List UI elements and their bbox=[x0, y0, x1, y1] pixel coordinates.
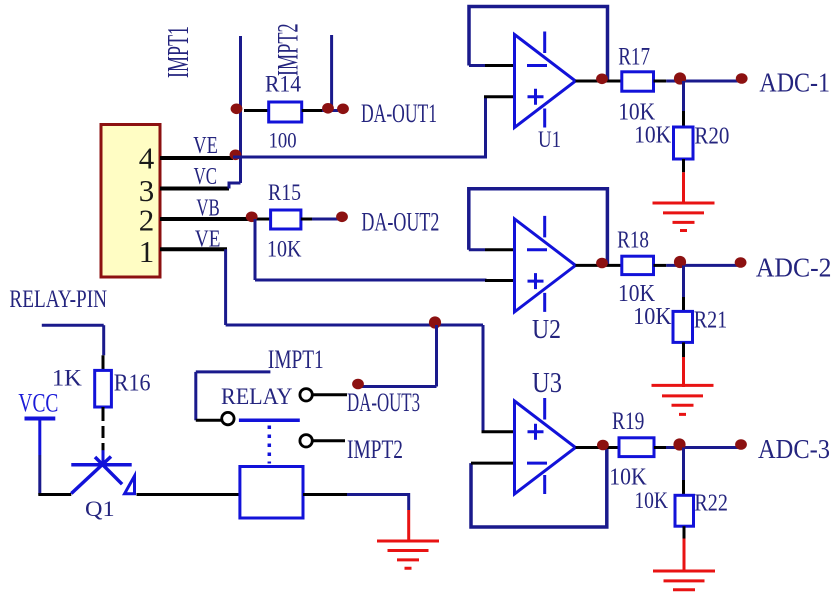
svg-text:10K: 10K bbox=[609, 464, 647, 490]
ground under relay coil bbox=[377, 541, 439, 568]
wire R16 bottom pin black dashed bbox=[102, 407, 105, 451]
wire relay ground red bbox=[407, 510, 410, 543]
wire R21 top pin black bbox=[682, 297, 685, 311]
wire DA-OUT3 branch horizontal bbox=[362, 385, 437, 388]
junction dot node1 bbox=[674, 72, 686, 84]
svg-text:10K: 10K bbox=[267, 237, 302, 262]
wire RELAY-PIN horizontal bbox=[42, 324, 104, 327]
wire node1 to ADC-1 bbox=[684, 80, 742, 83]
transistor Q1 collector line bbox=[95, 457, 122, 484]
wire IMPT1 contact down bbox=[194, 372, 197, 420]
svg-text:DA-OUT3: DA-OUT3 bbox=[347, 388, 420, 417]
power symbol VCC bar bbox=[25, 417, 56, 421]
op-amp U2 plus sign bbox=[528, 273, 544, 289]
svg-text:U2: U2 bbox=[532, 314, 561, 344]
wire row2 horizontal to U2 plus bbox=[255, 279, 487, 282]
svg-text:ADC-1: ADC-1 bbox=[759, 68, 830, 98]
relay common contact circle bbox=[222, 412, 234, 424]
wire node3 down navy bbox=[682, 448, 685, 481]
wire pin1 row horizontal bbox=[226, 324, 483, 327]
op-amp U3 triangle bbox=[515, 401, 576, 494]
wire R22 ground red bbox=[683, 539, 686, 573]
svg-text:R20: R20 bbox=[694, 124, 729, 150]
wire VCC to Q1 emitter black bbox=[38, 493, 71, 496]
wire U1 feedback loop bbox=[469, 7, 608, 82]
wire IMPT2 vertical net bbox=[330, 35, 333, 111]
wire R20 top pin black bbox=[682, 111, 685, 127]
svg-text:DA-OUT1: DA-OUT1 bbox=[361, 99, 437, 128]
relay NO contact circle bbox=[300, 389, 312, 401]
ground under R20 bbox=[653, 203, 715, 231]
port dot ADC-2 bbox=[735, 257, 747, 268]
wire R22 top pin black bbox=[682, 480, 685, 495]
op-amp U2 triangle bbox=[515, 219, 576, 312]
port dot DA-OUT3 bbox=[352, 379, 364, 390]
wire R14 right navy segment bbox=[322, 109, 338, 112]
svg-text:R16: R16 bbox=[114, 370, 151, 396]
junction dot R14 right bbox=[322, 103, 334, 114]
ground under R21 bbox=[652, 385, 714, 414]
wire Q1 collector to coil black bbox=[137, 493, 240, 496]
wire R18 right black bbox=[654, 264, 667, 267]
transistor Q1 emitter line bbox=[71, 457, 111, 494]
wire pin1 down vertical bbox=[224, 249, 227, 325]
junction dot DA-OUT3 node bbox=[429, 316, 441, 328]
wire U2 minus input black bbox=[485, 248, 515, 251]
wire U1 minus navy stub bbox=[469, 64, 485, 67]
wire R21 bottom pin black bbox=[682, 342, 685, 357]
wire R17 to node navy bbox=[666, 80, 683, 83]
port dot DA-OUT1 bbox=[337, 104, 349, 115]
wire U1 output black bbox=[576, 80, 622, 83]
relay NC contact circle IMPT2 bbox=[300, 435, 312, 447]
wire node2 down navy bbox=[682, 265, 685, 297]
pin 2 wire bbox=[160, 217, 250, 221]
wire RELAY-PIN down bbox=[102, 325, 105, 355]
wire relay NO contact black bbox=[313, 393, 347, 396]
svg-text:U3: U3 bbox=[532, 368, 562, 399]
relay actuator dotted line bbox=[268, 426, 272, 464]
power symbol VCC stem blue bbox=[38, 419, 41, 456]
wire R17 right black bbox=[654, 80, 667, 83]
svg-text:10K: 10K bbox=[634, 488, 668, 513]
op-amp U1 triangle bbox=[515, 35, 576, 128]
wire R20 ground red bbox=[682, 172, 685, 204]
junction dot node3 bbox=[673, 438, 685, 450]
svg-text:R14: R14 bbox=[265, 72, 301, 97]
svg-text:2: 2 bbox=[139, 203, 155, 238]
wire U2 minus navy stub bbox=[469, 248, 485, 251]
wire pin2 to R15 black segment bbox=[256, 218, 271, 221]
junction dot U3 output bbox=[597, 440, 609, 451]
resistor R14 bbox=[269, 102, 302, 122]
wire R19 to ADC-3 navy bbox=[666, 446, 741, 449]
op-amp U1 minus sign bbox=[527, 64, 547, 67]
op-amp U1 power ticks bbox=[543, 32, 546, 128]
wire U3 minus input black bbox=[471, 462, 515, 465]
wire pin2 node down bbox=[254, 219, 257, 280]
svg-text:R18: R18 bbox=[617, 228, 649, 254]
pin 4 wire bbox=[160, 156, 233, 160]
op-amp U2 minus sign bbox=[527, 248, 547, 251]
wire DA-OUT3 branch vertical bbox=[435, 325, 438, 387]
svg-text:10K: 10K bbox=[633, 304, 672, 330]
svg-text:10K: 10K bbox=[618, 281, 656, 307]
op-amp U3 plus sign bbox=[528, 424, 544, 440]
resistor R20 bbox=[674, 127, 694, 159]
svg-text:1K: 1K bbox=[52, 365, 82, 390]
svg-text:ADC-3: ADC-3 bbox=[758, 434, 830, 464]
wire U2 feedback loop bbox=[469, 189, 608, 265]
wire R15 to DA-OUT2 navy bbox=[312, 218, 338, 221]
junction dot node2 bbox=[674, 256, 686, 268]
port dot ADC-1 bbox=[736, 73, 748, 84]
resistor R19 bbox=[619, 438, 654, 457]
junction dot R14 left bbox=[231, 104, 243, 115]
resistor R21 bbox=[673, 311, 693, 342]
svg-text:U1: U1 bbox=[538, 127, 561, 152]
pin 1 wire bbox=[160, 247, 227, 251]
op-amp U3 power ticks bbox=[543, 398, 546, 494]
wire R19 right black bbox=[654, 446, 666, 449]
wire R14 left black segment bbox=[244, 109, 269, 112]
wire coil right navy bbox=[347, 495, 409, 511]
wire U3 output black bbox=[576, 446, 620, 449]
resistor R16 bbox=[95, 370, 112, 407]
pin 3 wire bbox=[160, 187, 229, 191]
resistor R17 bbox=[622, 72, 654, 91]
op-amp U3 minus sign bbox=[527, 462, 547, 465]
svg-text:VB: VB bbox=[196, 195, 219, 221]
transistor Q1 base bar bbox=[71, 463, 131, 467]
wire U1 plus input black bbox=[484, 95, 515, 98]
wire coil right black bbox=[303, 493, 347, 496]
svg-text:IMPT1: IMPT1 bbox=[268, 345, 324, 374]
svg-text:100: 100 bbox=[269, 127, 297, 152]
junction dot pin4 node bbox=[230, 150, 242, 161]
wire R16 top pin black bbox=[102, 355, 105, 370]
wire relay NC contact black bbox=[313, 439, 345, 442]
svg-text:VCC: VCC bbox=[18, 388, 58, 417]
op-amp U1 plus sign bbox=[528, 89, 544, 105]
wire IMPT1 contact horizontal bbox=[196, 370, 271, 373]
svg-text:RELAY-PIN: RELAY-PIN bbox=[9, 286, 107, 313]
svg-text:VE: VE bbox=[195, 227, 221, 253]
svg-text:R17: R17 bbox=[618, 44, 650, 71]
connector J1 body bbox=[101, 125, 160, 278]
junction dot U1 output bbox=[596, 74, 608, 85]
wire U2 output black bbox=[576, 264, 622, 267]
resistor R15 bbox=[271, 210, 301, 229]
svg-text:R19: R19 bbox=[612, 408, 644, 435]
wire R14 right black segment bbox=[302, 109, 322, 112]
wire U1 minus input black bbox=[485, 64, 515, 67]
relay blade blue bbox=[239, 419, 300, 423]
svg-text:R21: R21 bbox=[694, 307, 728, 333]
svg-text:4: 4 bbox=[139, 141, 155, 176]
port dot ADC-3 bbox=[735, 439, 747, 450]
wire U3 plus vertical bbox=[482, 325, 485, 433]
junction dot pin2 node bbox=[246, 212, 258, 223]
wire R18 to ADC-2 navy bbox=[666, 264, 741, 267]
port dot DA-OUT2 bbox=[336, 212, 348, 223]
wire node1 down navy bbox=[682, 81, 685, 111]
wire U1 plus vertical bbox=[484, 97, 487, 159]
svg-text:VC: VC bbox=[194, 164, 217, 190]
wire row1 horizontal to U1 plus bbox=[233, 156, 486, 159]
wire IMPT1 vertical net bbox=[239, 36, 242, 183]
svg-text:1: 1 bbox=[139, 234, 155, 269]
svg-text:IMPT1: IMPT1 bbox=[160, 26, 195, 78]
svg-text:Q1: Q1 bbox=[85, 496, 115, 521]
op-amp U2 power ticks bbox=[543, 216, 546, 312]
wire R15 right black pin bbox=[301, 218, 312, 221]
resistor R18 bbox=[622, 256, 654, 274]
svg-text:IMPT2: IMPT2 bbox=[347, 435, 403, 464]
wire U2 plus input black bbox=[485, 279, 515, 282]
wire U3 plus input black bbox=[482, 430, 516, 433]
svg-text:IMPT2: IMPT2 bbox=[271, 23, 304, 76]
wire to relay common black bbox=[196, 419, 221, 422]
svg-text:DA-OUT2: DA-OUT2 bbox=[361, 208, 439, 237]
svg-text:R15: R15 bbox=[268, 180, 301, 205]
transistor Q1 collector arrow bbox=[125, 476, 135, 494]
ground under R22 bbox=[653, 571, 715, 590]
junction dot U2 output bbox=[596, 258, 608, 269]
svg-text:RELAY: RELAY bbox=[221, 384, 293, 409]
svg-text:VE: VE bbox=[193, 133, 218, 159]
relay coil K1 bbox=[240, 467, 303, 519]
svg-text:R22: R22 bbox=[694, 490, 728, 516]
wire R22 bottom pin black bbox=[683, 526, 686, 538]
svg-text:10K: 10K bbox=[634, 122, 672, 148]
resistor R22 bbox=[675, 495, 694, 526]
wire R21 ground red bbox=[682, 357, 685, 387]
wire pin3 jog bbox=[229, 183, 241, 189]
svg-text:ADC-2: ADC-2 bbox=[756, 253, 832, 283]
wire U3 feedback loop bbox=[471, 448, 607, 528]
wire R20 bottom pin black bbox=[682, 159, 685, 172]
wire Q1 base blue bbox=[102, 450, 105, 465]
wire VCC stem navy bbox=[38, 455, 41, 495]
